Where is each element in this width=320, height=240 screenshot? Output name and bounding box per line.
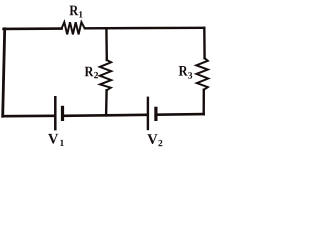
wire bottom right (V2 to bottom-right corner) <box>157 113 204 116</box>
battery V2 short plate <box>154 107 157 121</box>
wire bottom middle (V1 through node B to battery V2) <box>64 115 147 116</box>
label R2 <box>85 67 98 78</box>
resistor R3 <box>196 58 208 89</box>
wire right vertical lower (R3 to bottom-right corner) <box>202 90 205 115</box>
wire bottom left (bottom-left corner to battery V1) <box>3 115 55 118</box>
label V1 <box>48 134 64 146</box>
label R3 <box>179 66 192 79</box>
wire top left (from top-left corner to R1) <box>4 27 62 30</box>
resistor R2 <box>100 60 111 90</box>
wire top right (R1 to top-right corner, through node A) <box>85 27 204 30</box>
battery V1 long plate <box>54 96 57 130</box>
label V2 <box>147 134 162 146</box>
wire left vertical <box>3 29 5 116</box>
battery V1 short plate <box>61 106 64 121</box>
battery V2 long plate <box>147 97 149 131</box>
label R1 <box>70 6 83 18</box>
wire right vertical upper (top-right corner down to R3) <box>203 28 206 58</box>
wire middle branch lower (R2 to bottom node B) <box>105 90 108 115</box>
resistor R1 <box>62 22 85 34</box>
wire middle branch upper (node A down to R2) <box>105 29 108 60</box>
